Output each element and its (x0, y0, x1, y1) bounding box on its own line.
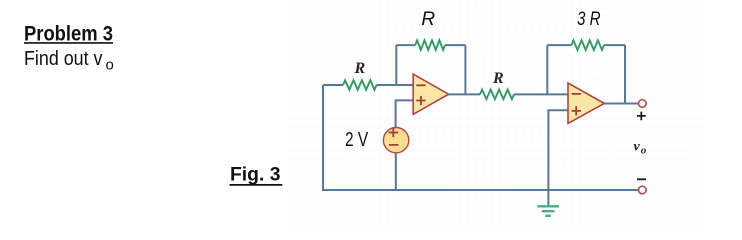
svg-text:R: R (353, 60, 365, 77)
op-amp U1 (413, 74, 448, 114)
resistor R (feedback of U1) (415, 40, 445, 50)
svg-text:Fig. 3: Fig. 3 (230, 165, 281, 186)
svg-text:3 R: 3 R (577, 9, 601, 30)
resistor R (input, left) (343, 80, 377, 90)
wire: U2 noninverting input to ground rail (548, 110, 568, 190)
source V1 2V (383, 128, 408, 153)
label vo (output voltage) (634, 139, 647, 156)
ground (537, 190, 559, 216)
op-amp U2 (568, 83, 604, 123)
wire: left rail (322, 85, 324, 190)
svg-text:o: o (106, 57, 114, 74)
svg-text:R: R (492, 70, 504, 87)
wire: U2 output to terminal (604, 103, 638, 105)
wire: feedback 2 left vertical (546, 45, 548, 94)
svg-text:Find out v: Find out v (24, 48, 103, 70)
terminal: output positive (639, 100, 647, 108)
resistor R (between op-amps) (480, 90, 514, 100)
wire: feedback 1 left vertical (395, 45, 397, 85)
caption Fig. 3 (230, 165, 283, 186)
wire: source bottom to bottom rail (395, 153, 397, 190)
wire: U1 output to middle resistor (448, 93, 480, 95)
wire: middle resistor to U2 inverting input (514, 93, 569, 95)
label + (output polarity) (637, 112, 646, 121)
svg-text:R: R (421, 9, 435, 30)
wire: feedback 2 top (547, 44, 625, 46)
label - (output polarity) (637, 178, 646, 180)
wire: feedback 2 right vertical (624, 45, 626, 103)
wire: feedback 1 top (396, 44, 465, 46)
title Problem 3 (24, 22, 113, 45)
wire: feedback 1 right vertical (464, 45, 466, 94)
wire: bottom rail (322, 189, 638, 191)
resistor 3R (feedback of U2) (571, 40, 604, 50)
caption Find out vo (24, 48, 114, 73)
svg-text:o: o (641, 144, 647, 156)
terminal: output negative (639, 186, 647, 194)
svg-text:2 V: 2 V (345, 129, 369, 151)
wire: input from left rail to op-amp U1 inverting input (323, 84, 414, 86)
svg-text:Problem 3: Problem 3 (24, 22, 113, 45)
svg-text:v: v (634, 139, 641, 154)
wire: U1 noninverting input from source (396, 100, 414, 128)
